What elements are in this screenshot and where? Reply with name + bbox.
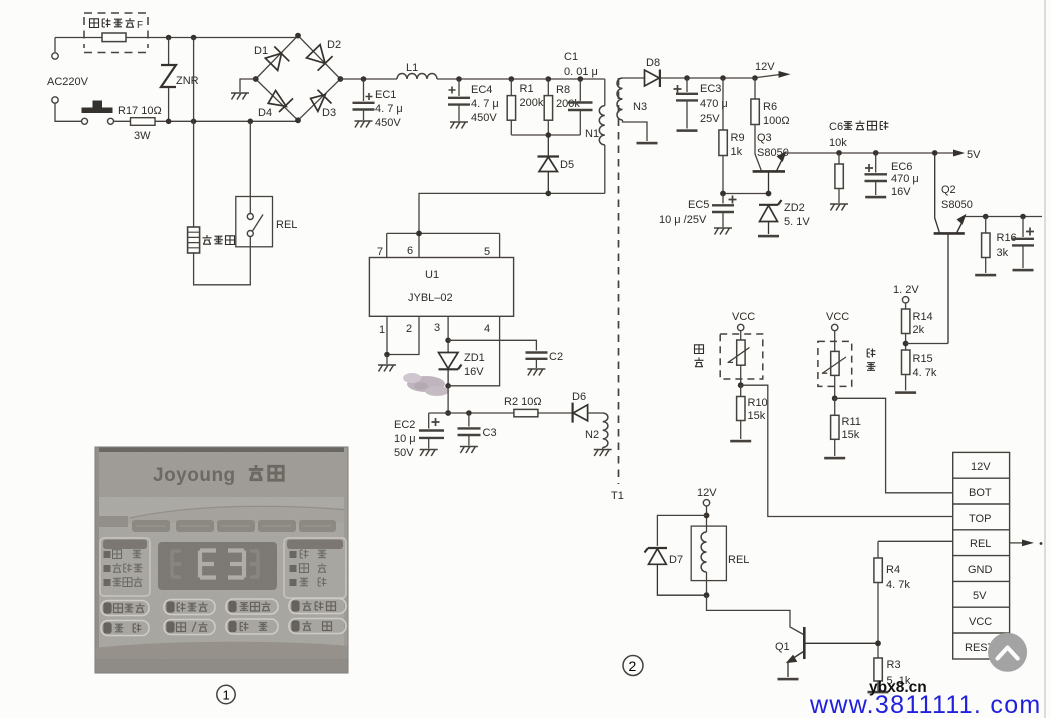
label ZD2 5.1V [784,202,810,228]
label R9 1k [731,132,745,158]
node on top rail at ZNR [166,35,172,41]
resistor R1 [507,79,515,135]
wire: to D7 top [657,515,706,546]
capacitor EC2 [419,418,444,449]
node EC1 tap [361,76,367,82]
svg-text:R6: R6 [763,101,777,113]
svg-text:D1: D1 [254,45,268,57]
node ZD2 junction [766,191,772,197]
svg-text:6: 6 [407,245,413,257]
terminal 1.2V [902,297,908,303]
svg-text:Q3: Q3 [757,132,772,144]
svg-text:S8050: S8050 [941,199,973,211]
wire: D5 anode rail to U1 riser [419,193,605,233]
diode D4 [268,91,293,113]
label R14 2k [913,311,933,336]
winding N2 [603,413,608,447]
transformer T1 dashed separator [618,78,620,484]
wire: R9 bottom to ZD2 [723,193,769,195]
svg-text:200k: 200k [556,98,580,110]
svg-text:D7: D7 [669,554,683,566]
svg-text:450V: 450V [375,117,401,129]
svg-text:R8: R8 [556,84,570,96]
ground (output cap) [1013,269,1034,272]
IC U1 box [369,258,513,317]
node 12V/D7/coil top [704,513,710,519]
winding N1 [599,79,605,193]
svg-text:C2: C2 [549,351,563,363]
node D5 bottom on rail [546,191,552,197]
svg-text:D4: D4 [258,107,272,119]
terminal 12V relay [703,500,709,506]
diode D7 (freewheel) [645,548,707,595]
svg-text:EC2: EC2 [394,419,415,431]
ground (C3) [460,447,478,454]
svg-text:D3: D3 [322,107,336,119]
ground (R15) [895,391,916,394]
transistor Q3 [753,152,786,194]
back to top button [988,633,1027,672]
svg-text:AC220V: AC220V [47,76,89,88]
svg-text:5V: 5V [967,149,981,161]
svg-text:0. 01 μ: 0. 01 μ [564,66,598,78]
capacitor EC3 [674,78,699,129]
resistor R9 [719,78,727,194]
wire: heater bottom loop [194,247,251,285]
node coil bottom junction [704,592,710,598]
ground (ZD2) [758,235,779,238]
wire: bridge left to ground [240,79,256,92]
wire+arrow REL pin out [1010,540,1043,547]
svg-text:JYBL–02: JYBL–02 [408,292,453,304]
svg-text:R3: R3 [887,659,901,671]
svg-text:12V: 12V [971,461,991,473]
svg-text:16V: 16V [891,186,911,198]
node pin3 / C2 junction [445,338,451,344]
svg-text:REL: REL [970,538,991,550]
svg-text:R10: R10 [748,397,768,409]
svg-text:R17 10Ω: R17 10Ω [118,105,162,117]
diode D3 [311,90,332,112]
connector block [953,452,1010,659]
label C1 0.01u [564,51,598,78]
label R16 3k [997,232,1017,259]
svg-text:25V: 25V [700,113,720,125]
svg-text:N3: N3 [633,101,647,113]
svg-text:T1: T1 [611,490,624,502]
svg-text:15k: 15k [842,429,860,441]
transistor Q2 [934,153,966,344]
wire: R1/R8/C1 bottom bus [511,134,580,136]
wire: REL contact branch [249,121,251,213]
wire: switch to R17 [114,120,131,122]
resistor R10 [737,385,745,439]
node C1 top [578,76,584,82]
svg-text:10 μ /25V: 10 μ /25V [659,214,707,226]
svg-text:N2: N2 [585,429,599,441]
page edge line [1044,0,1046,718]
svg-text:R1: R1 [520,83,534,95]
node bridge bottom [295,117,301,123]
resistor R6 [751,78,762,171]
label 锅盖 [695,345,704,367]
label EC1 4.7u 450V [375,89,403,129]
terminal: AC upper [52,53,58,59]
svg-text:5V: 5V [973,590,987,602]
inductor L1 [397,74,437,80]
label 磁钢 [867,349,876,371]
diode D5 [538,135,560,193]
capacitor EC1 [353,79,375,120]
zener ZD2 [759,200,782,234]
label R10 15k [748,397,768,422]
svg-text:470 μ: 470 μ [891,173,919,185]
node bottom rail at ZNR [166,119,172,125]
svg-text:F: F [137,20,143,31]
capacitor C1 [568,79,593,135]
node EC2 rail left junction [445,410,451,416]
resistor R8 [544,79,552,135]
svg-text:VCC: VCC [969,616,992,628]
svg-text:10k: 10k [829,137,847,149]
ground (C2) [527,369,545,376]
thermistor (pot lid) [728,331,750,386]
wire: N2 to ground [602,447,604,449]
wire: pin3 to C2 [448,340,536,350]
svg-text:15k: 15k [748,410,766,422]
dashed box (pot lid sensor) [720,334,763,379]
svg-text:D8: D8 [646,57,660,69]
capacitor EC6 [865,153,888,195]
svg-text:Q1: Q1 [775,641,790,653]
svg-text:VCC: VCC [732,311,755,323]
transistor Q1 [787,627,878,677]
wire: Q3 emitter to 5V rail [785,152,958,154]
svg-text:1: 1 [223,688,230,703]
ground (U1 pin1/2) [378,365,396,372]
dashed box (magnet sensor) [818,341,852,386]
label R11 15k [842,416,861,441]
node bridge left [253,76,259,82]
svg-text:ZNR: ZNR [176,75,199,87]
label EC3 470u 25V [700,83,728,125]
svg-text:3W: 3W [134,130,151,142]
bridge rectifier: wires diamond [256,36,341,121]
svg-text:10 μ: 10 μ [394,433,416,445]
wire: U1 top pins bus [387,233,500,257]
node 10k resistor tap [836,150,842,156]
ground (N3) [637,142,658,145]
wire: REL pin to R4 [878,540,953,542]
node R8 top [546,76,552,82]
wire: junction to TOP pin [741,385,953,516]
svg-text:L1: L1 [406,62,418,74]
wire: AC live top lead [55,37,298,39]
node Q2 collector tap [932,150,938,156]
wire: heater branch vertical [193,38,195,228]
ground (N2) [594,450,612,457]
wire: EC2 rail [429,413,514,429]
label 磁钢内部F [90,18,135,28]
svg-text:D6: D6 [572,391,586,403]
label EC6 470u 16V [891,161,919,198]
resistor R17 [131,118,156,126]
label Q3 S8050 [757,132,789,159]
svg-text:12V: 12V [755,61,775,73]
svg-text:5: 5 [484,246,490,258]
label Q2 S8050 [941,184,973,211]
node R14/R15 junction [903,341,909,347]
svg-text:BOT: BOT [969,487,992,499]
wire: L1 to C1 rail [437,78,605,80]
wire: pin1 stub [386,316,388,354]
winding N3 [617,78,647,141]
svg-text:1: 1 [379,324,385,336]
svg-text:ZD2: ZD2 [784,202,805,214]
label EC2 10u 50V [394,419,416,459]
svg-text:50V: 50V [394,447,414,459]
label R3 5.1k [887,659,911,687]
svg-text:EC4: EC4 [471,84,492,96]
node bottom rail at heater branch [191,119,197,125]
label ZD1 16V [464,352,485,378]
varistor ZNR [161,38,176,122]
node output cap tap [1020,214,1026,220]
svg-text:4. 7 μ: 4. 7 μ [375,103,403,115]
wire: AC neutral lead [55,103,81,121]
ground (EC6) [865,196,886,199]
ground (R16) [975,274,996,277]
node bridge top [295,33,301,39]
wire: pin3 stub [447,316,449,352]
wire: 12V to coil junction [706,506,708,526]
circled number 1 [217,685,235,703]
ground (EC1) [355,121,373,128]
svg-text:ZD1: ZD1 [464,352,485,364]
svg-text:VCC: VCC [826,311,849,323]
node ZD1 bottom junction [445,383,451,389]
node U1 pin6 riser [416,231,422,237]
arrow 5V [953,150,965,157]
resistor R2 [514,409,538,416]
wire: pin4 down to ZD1 bottom [448,316,500,386]
wire: junction to Q2 base [906,343,948,345]
svg-text:2k: 2k [913,324,925,336]
label EC5 10u/25V [659,199,709,226]
resistor R14 [902,303,910,350]
node bridge right [338,76,344,82]
svg-text:1k: 1k [731,146,743,158]
svg-text:R15: R15 [913,353,933,365]
node magnet divider junction [832,395,838,401]
relay coil REL box [691,526,726,595]
capacitor EC5 [712,194,737,228]
relay contact REL box [236,197,273,247]
resistor R16 [982,217,990,274]
diode D8 [645,70,660,88]
svg-text:C6: C6 [829,121,843,133]
node EC6 tap [873,150,879,156]
label C6 measured resistance [829,121,888,150]
switch SW (push button) [82,101,114,125]
ground (R10) [730,440,751,443]
terminal: AC lower [52,97,58,103]
svg-text:EC1: EC1 [375,89,396,101]
node EC4 tap [456,76,462,82]
svg-text:D5: D5 [560,159,574,171]
svg-text:EC5: EC5 [688,199,709,211]
diode D6 [573,403,588,423]
node C3 tap [466,410,472,416]
svg-text:R11: R11 [842,416,861,428]
svg-text:4. 7 μ: 4. 7 μ [471,98,499,110]
label R1 200k [520,83,544,109]
svg-text:7: 7 [377,246,383,258]
ground (R3) [868,691,889,694]
svg-text:REL: REL [276,219,297,231]
svg-text:EC3: EC3 [700,83,721,95]
fuse F (in dashed box) [102,33,126,42]
svg-text:C1: C1 [564,51,578,63]
diode D1 [265,47,289,71]
resistor R15 [902,350,910,391]
resistor R11 [831,398,839,456]
photo inset: Joyoung control panel [95,447,348,673]
node EC5 junction [720,191,726,197]
svg-text:100Ω: 100Ω [763,115,790,127]
capacitor C2 [526,353,548,369]
node R1 top [509,76,515,82]
terminal VCC magnet [832,324,838,330]
circled number 2 [623,656,643,676]
resistor 10k [835,153,843,203]
scan smudge artifact [403,373,449,396]
svg-text:D2: D2 [327,39,341,51]
label R6 100 ohm [763,101,790,127]
node on top rail at heater branch [191,35,197,41]
svg-text:3k: 3k [997,247,1009,259]
svg-text:3: 3 [434,322,440,334]
wire: Q2 emitter rail [965,216,1042,218]
node pot-lid divider junction [738,382,744,388]
capacitor C3 [458,413,481,446]
zener ZD1 [439,353,462,386]
svg-text:R9: R9 [731,132,745,144]
node pin1 ground junction [384,352,390,358]
svg-text:2: 2 [629,658,637,674]
diode D2 [307,45,333,71]
svg-text:Q2: Q2 [941,184,956,196]
svg-text:GND: GND [968,564,993,576]
label R4 4.7k [886,564,910,591]
wire: 12V rail [660,77,757,79]
svg-text:EC6: EC6 [891,161,912,173]
node bottom rail at REL branch [248,119,254,125]
svg-text:4. 7k: 4. 7k [913,367,937,379]
node D5 top [546,132,552,138]
wire: to ground [386,355,388,365]
svg-text:R2 10Ω: R2 10Ω [504,396,542,408]
label R15 4.7k [913,353,937,379]
svg-text:N1: N1 [585,128,599,140]
wire: junction to BOT pin [835,398,953,493]
wire: R2 to D6 [538,412,572,414]
svg-text:REL: REL [728,554,749,566]
svg-text:16V: 16V [464,366,484,378]
svg-text:R14: R14 [913,311,933,323]
svg-text:4: 4 [484,323,490,335]
svg-text:R4: R4 [886,564,900,576]
thermistor (magnet) [822,331,846,399]
svg-text:1. 2V: 1. 2V [893,284,919,296]
label EC4 4.7u 450V [471,84,499,124]
svg-text:C3: C3 [483,427,497,439]
label 加热盘 [203,235,235,245]
svg-text:2: 2 [406,323,412,335]
heater 加热盘 [188,227,200,253]
wire: bottom AC rail [155,120,298,122]
node R6 top [752,75,758,81]
svg-text:200k: 200k [520,97,544,109]
svg-text:4. 7k: 4. 7k [886,579,910,591]
svg-text:450V: 450V [471,112,497,124]
terminal VCC pot lid [738,324,744,330]
svg-text:12V: 12V [697,487,717,499]
ground (EC2) [420,450,438,457]
wire: D6 to N2 [588,412,603,414]
svg-text:TOP: TOP [969,513,991,525]
ground (EC5) [714,228,732,235]
resistor R4 [874,541,882,658]
arrow 12V [757,71,791,78]
node Q1 base junction [875,640,881,646]
ground (Q1 emitter) [778,678,799,681]
wire: coil to Q1 collector [707,595,804,634]
svg-text:5. 1V: 5. 1V [784,216,810,228]
node R16 tap [983,214,989,220]
wire: ZD1 bottom to EC2 rail [447,386,449,413]
label R8 200k [556,84,580,110]
svg-text:www.3811111. com: www.3811111. com [809,691,1042,718]
ground (R11) [824,457,845,460]
capacitor EC4 [448,79,470,121]
wire: bridge right to L1 [340,78,397,80]
capacitor (output, unlabeled) [1012,217,1034,269]
svg-text:U1: U1 [425,269,439,281]
ground (bridge left) [231,93,249,100]
wire: pin2 stub joins pin1 [387,316,419,354]
node EC3 tap [684,75,690,81]
node R9 top [720,75,726,81]
ground (EC4) [450,122,468,129]
resistor R3 [874,658,882,691]
wire: N3 top to D8 [623,77,646,79]
ground (10k) [830,204,848,211]
ground (EC3) [677,129,698,132]
dashed box 磁钢内部 (fuse enclosure) [84,13,148,53]
